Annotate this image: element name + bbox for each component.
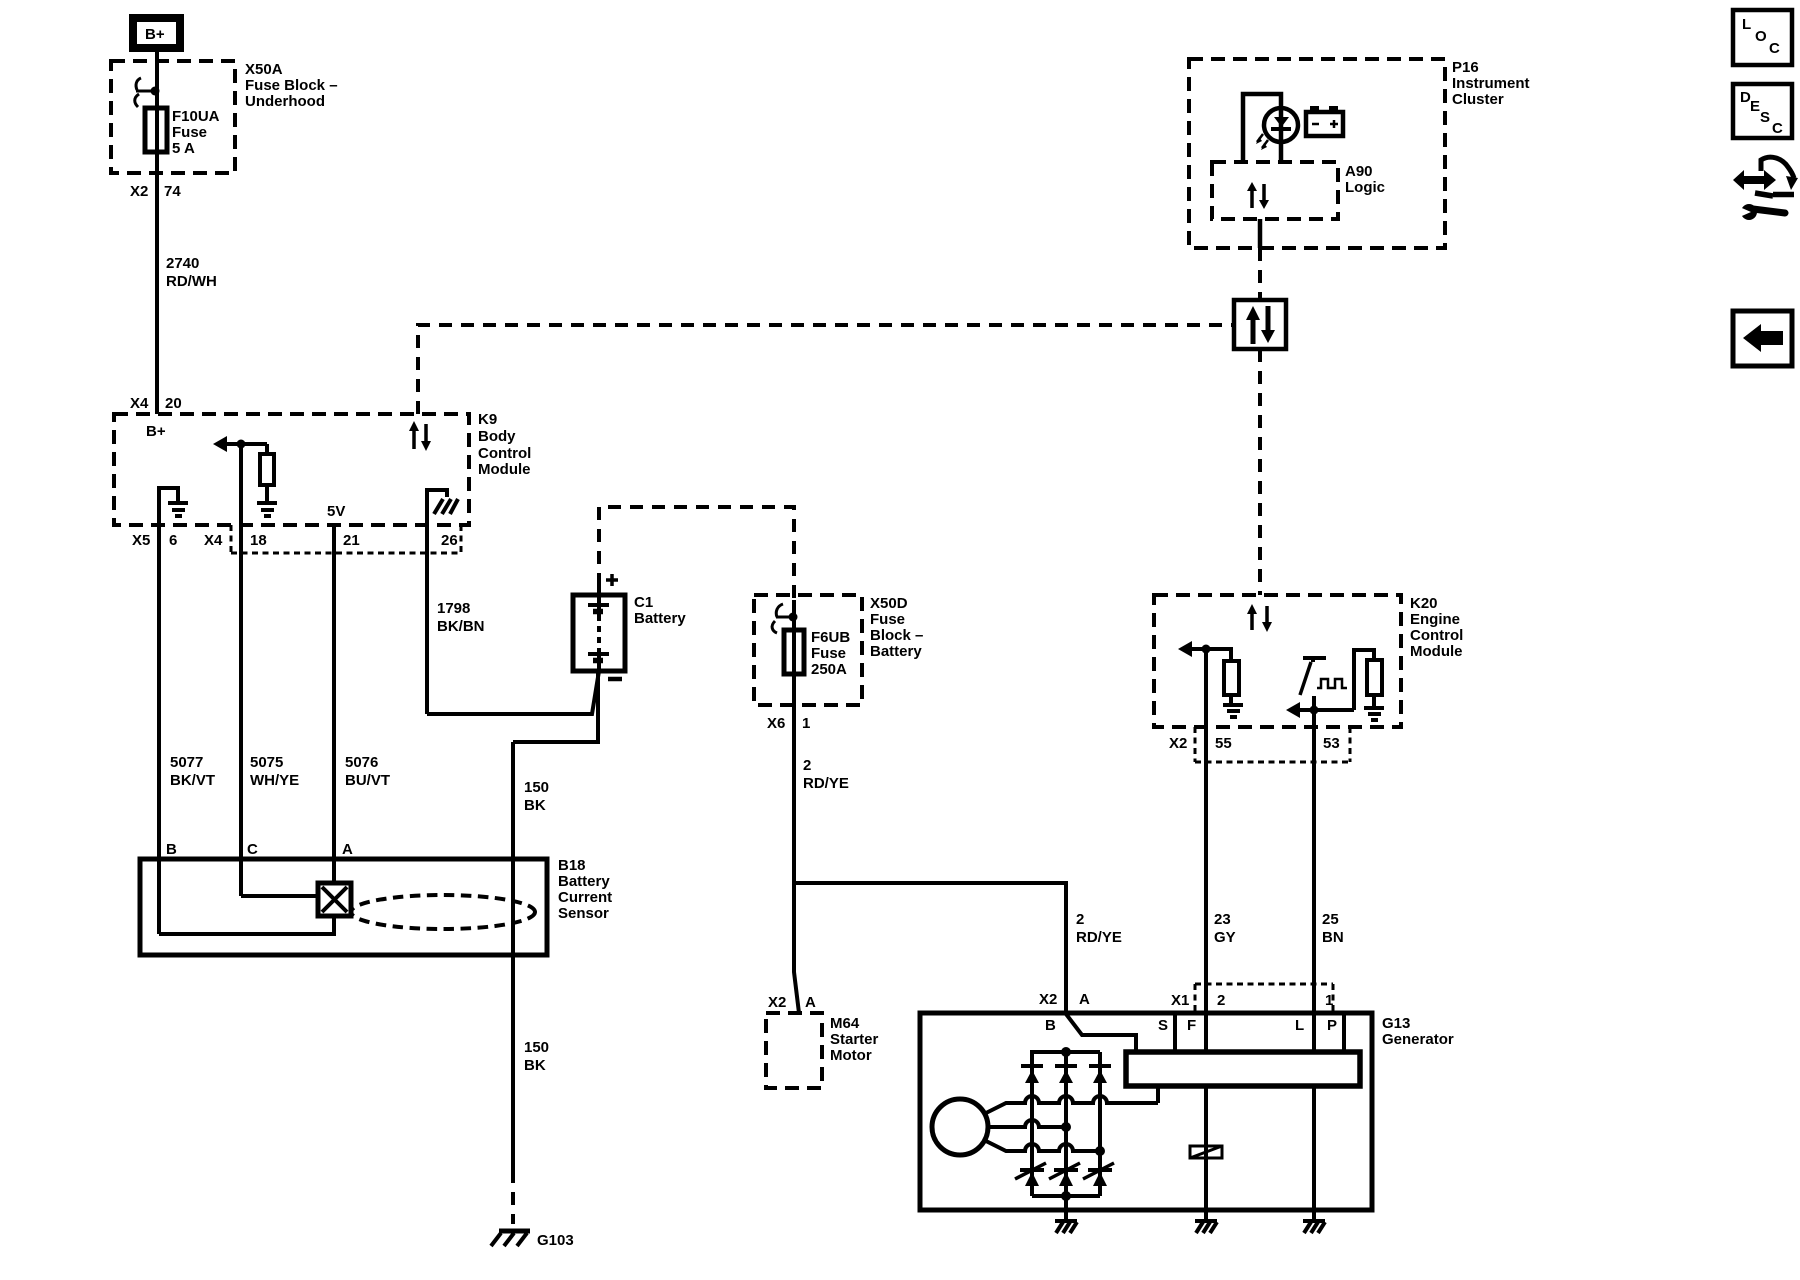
svg-text:S: S	[1760, 109, 1770, 126]
svg-text:K20: K20	[1410, 595, 1438, 612]
svg-text:Battery: Battery	[870, 643, 922, 660]
svg-text:Control: Control	[1410, 627, 1463, 644]
svg-text:Fuse: Fuse	[172, 124, 207, 141]
svg-text:P: P	[1327, 1017, 1337, 1034]
svg-text:X50D: X50D	[870, 595, 908, 612]
svg-text:2: 2	[1076, 911, 1084, 928]
svg-text:X50A: X50A	[245, 61, 283, 78]
svg-text:21: 21	[343, 532, 360, 549]
svg-text:B: B	[166, 841, 177, 858]
svg-text:BK: BK	[524, 1057, 546, 1074]
svg-text:5077: 5077	[170, 754, 203, 771]
svg-text:Cluster: Cluster	[1452, 91, 1504, 108]
svg-text:Current: Current	[558, 889, 612, 906]
svg-text:Motor: Motor	[830, 1047, 872, 1064]
svg-text:M64: M64	[830, 1015, 860, 1032]
svg-text:2: 2	[803, 757, 811, 774]
svg-text:1798: 1798	[437, 600, 470, 617]
svg-text:Fuse Block –: Fuse Block –	[245, 77, 338, 94]
svg-text:Battery: Battery	[634, 610, 686, 627]
svg-text:20: 20	[165, 395, 182, 412]
svg-text:Fuse: Fuse	[811, 645, 846, 662]
svg-text:X2: X2	[1039, 991, 1057, 1008]
svg-text:5 A: 5 A	[172, 140, 195, 157]
svg-text:25: 25	[1322, 911, 1339, 928]
svg-text:Fuse: Fuse	[870, 611, 905, 628]
svg-text:1: 1	[802, 715, 810, 732]
svg-text:6: 6	[169, 532, 177, 549]
svg-text:5075: 5075	[250, 754, 283, 771]
svg-text:55: 55	[1215, 735, 1232, 752]
svg-text:RD/WH: RD/WH	[166, 273, 217, 290]
svg-text:BK/VT: BK/VT	[170, 772, 215, 789]
svg-text:18: 18	[250, 532, 267, 549]
svg-text:5076: 5076	[345, 754, 378, 771]
svg-text:26: 26	[441, 532, 458, 549]
svg-text:X4: X4	[130, 395, 149, 412]
svg-text:X4: X4	[204, 532, 223, 549]
svg-text:F6UB: F6UB	[811, 629, 850, 646]
svg-text:Sensor: Sensor	[558, 905, 609, 922]
svg-text:74: 74	[164, 183, 181, 200]
svg-text:Instrument: Instrument	[1452, 75, 1530, 92]
svg-text:Module: Module	[1410, 643, 1463, 660]
svg-text:B+: B+	[145, 26, 165, 43]
svg-text:S: S	[1158, 1017, 1168, 1034]
svg-text:X1: X1	[1171, 992, 1189, 1009]
svg-text:F: F	[1187, 1017, 1196, 1034]
svg-text:G103: G103	[537, 1232, 574, 1249]
svg-text:A: A	[1079, 991, 1090, 1008]
svg-text:Logic: Logic	[1345, 179, 1385, 196]
svg-text:2: 2	[1217, 992, 1225, 1009]
svg-text:P16: P16	[1452, 59, 1479, 76]
svg-text:RD/YE: RD/YE	[1076, 929, 1122, 946]
svg-text:B: B	[1045, 1017, 1056, 1034]
svg-text:GY: GY	[1214, 929, 1236, 946]
svg-text:C: C	[1769, 40, 1780, 57]
svg-text:53: 53	[1323, 735, 1340, 752]
svg-text:WH/YE: WH/YE	[250, 772, 299, 789]
svg-text:1: 1	[1325, 992, 1333, 1009]
svg-text:Starter: Starter	[830, 1031, 879, 1048]
svg-text:G13: G13	[1382, 1015, 1410, 1032]
svg-text:O: O	[1755, 28, 1767, 45]
svg-text:A90: A90	[1345, 163, 1373, 180]
svg-text:K9: K9	[478, 411, 497, 428]
svg-text:A: A	[342, 841, 353, 858]
svg-text:E: E	[1750, 98, 1760, 115]
svg-text:Module: Module	[478, 461, 531, 478]
svg-text:Control: Control	[478, 445, 531, 462]
svg-text:B+: B+	[146, 423, 166, 440]
svg-text:Generator: Generator	[1382, 1031, 1454, 1048]
svg-text:BU/VT: BU/VT	[345, 772, 390, 789]
svg-text:150: 150	[524, 1039, 549, 1056]
svg-text:Engine: Engine	[1410, 611, 1460, 628]
svg-text:X5: X5	[132, 532, 150, 549]
svg-text:BK/BN: BK/BN	[437, 618, 485, 635]
svg-text:5V: 5V	[327, 503, 345, 520]
svg-text:X2: X2	[1169, 735, 1187, 752]
svg-text:Block –: Block –	[870, 627, 923, 644]
svg-text:X2: X2	[768, 994, 786, 1011]
svg-text:F10UA: F10UA	[172, 108, 220, 125]
svg-text:Body: Body	[478, 428, 516, 445]
svg-text:L: L	[1295, 1017, 1304, 1034]
svg-text:L: L	[1742, 16, 1751, 33]
svg-text:Underhood: Underhood	[245, 93, 325, 110]
svg-text:RD/YE: RD/YE	[803, 775, 849, 792]
svg-text:C1: C1	[634, 594, 653, 611]
svg-text:C: C	[247, 841, 258, 858]
svg-text:23: 23	[1214, 911, 1231, 928]
svg-text:Battery: Battery	[558, 873, 610, 890]
svg-text:250A: 250A	[811, 661, 847, 678]
svg-text:BN: BN	[1322, 929, 1344, 946]
svg-text:BK: BK	[524, 797, 546, 814]
svg-text:2740: 2740	[166, 255, 199, 272]
svg-text:A: A	[805, 994, 816, 1011]
svg-text:C: C	[1772, 120, 1783, 137]
svg-text:X2: X2	[130, 183, 148, 200]
svg-text:X6: X6	[767, 715, 785, 732]
svg-text:150: 150	[524, 779, 549, 796]
svg-text:B18: B18	[558, 857, 586, 874]
